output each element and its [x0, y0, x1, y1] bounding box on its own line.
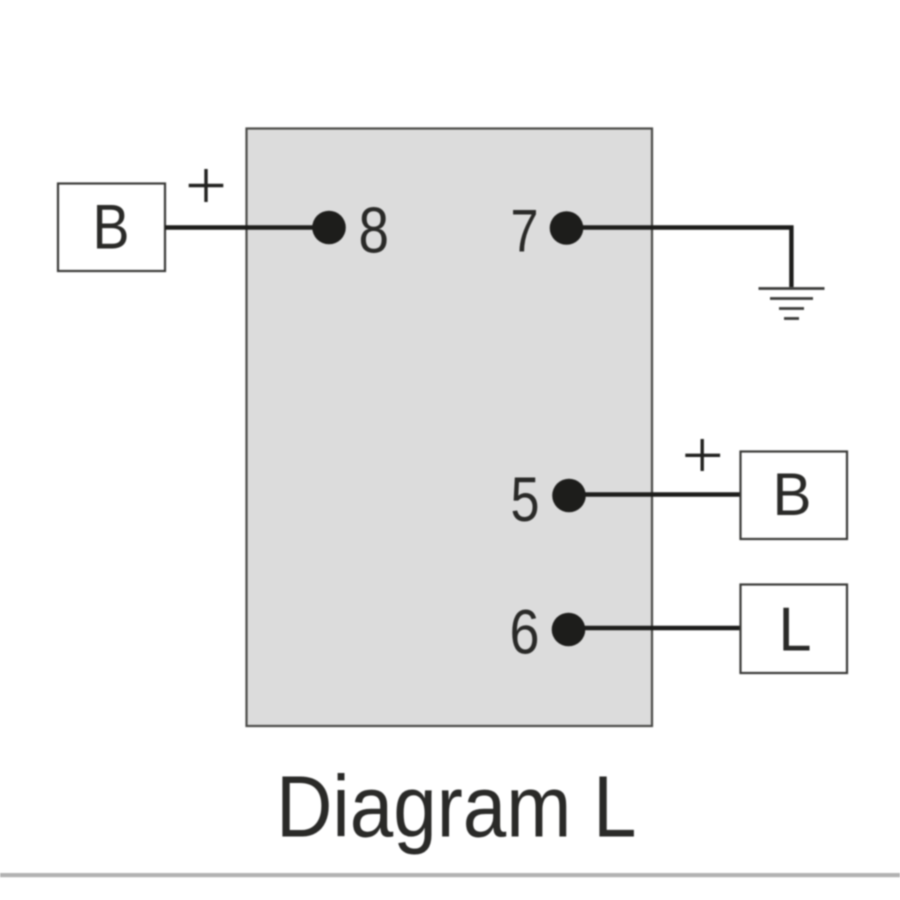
svg-text:L: L: [779, 596, 812, 665]
polarity label + (right): [685, 439, 720, 471]
battery box B (left): [58, 184, 165, 272]
svg-text:5: 5: [511, 465, 540, 535]
switch body (terminal block): [247, 129, 653, 727]
svg-text:7: 7: [511, 198, 539, 265]
wire terminal 6 to L: [569, 626, 741, 630]
wire B to terminal 8: [165, 225, 329, 229]
svg-text:B: B: [773, 461, 812, 528]
terminal dot 6: [552, 613, 586, 647]
load box L (lamp): [741, 585, 848, 674]
terminal dot 8: [312, 211, 346, 245]
polarity label + (left): [189, 169, 224, 202]
separator line: [0, 873, 900, 877]
terminal dot 5: [552, 479, 586, 513]
battery box B (right): [741, 452, 848, 540]
svg-text:6: 6: [510, 598, 540, 668]
wire terminal 5 to B: [569, 492, 740, 496]
terminal dot 7: [550, 211, 584, 245]
svg-text:Diagram L: Diagram L: [276, 759, 637, 856]
svg-text:B: B: [93, 193, 130, 263]
ground symbol: [759, 289, 825, 319]
wire terminal 7 to ground: [567, 228, 792, 288]
svg-text:8: 8: [359, 194, 390, 267]
